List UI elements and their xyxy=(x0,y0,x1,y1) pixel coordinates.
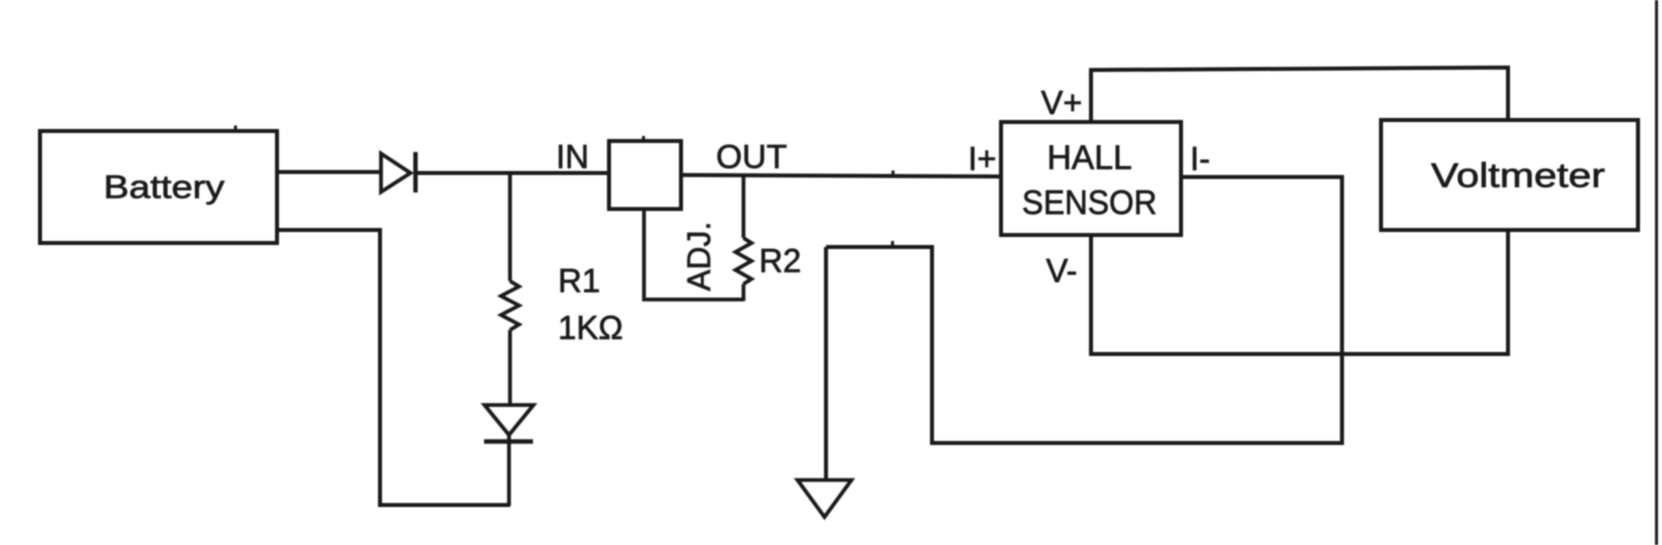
label V- xyxy=(1046,252,1077,289)
label R1 1KΩ xyxy=(558,262,623,346)
svg-text:Voltmeter: Voltmeter xyxy=(1431,157,1605,195)
svg-text:V+: V+ xyxy=(1041,84,1082,121)
svg-text:IN: IN xyxy=(556,138,589,175)
wire ADJ pin xyxy=(644,209,744,300)
label IN xyxy=(556,138,589,175)
label I- xyxy=(1190,140,1210,177)
wire battery minus return loop xyxy=(277,230,510,505)
wire hall V+ to voltmeter top xyxy=(1091,68,1508,123)
label R2 xyxy=(759,242,801,279)
label I+ xyxy=(968,140,996,177)
ground xyxy=(798,247,852,517)
svg-text:OUT: OUT xyxy=(716,138,787,175)
svg-text:R2: R2 xyxy=(759,242,801,279)
wire diode to regulator IN xyxy=(415,171,610,175)
diode D1 xyxy=(381,152,416,193)
wire hall I- to ground loop xyxy=(826,177,1342,443)
svg-text:1KΩ: 1KΩ xyxy=(558,309,623,346)
resistor R1 xyxy=(501,281,519,406)
svg-text:Battery: Battery xyxy=(104,169,225,205)
label V+ xyxy=(1041,84,1082,121)
node junction at 510 xyxy=(508,173,512,281)
svg-text:I+: I+ xyxy=(968,140,996,177)
resistor R2 xyxy=(736,175,752,301)
voltmeter M1 xyxy=(1381,120,1638,230)
wire regulator OUT to hall I+ xyxy=(681,171,1002,177)
svg-text:V-: V- xyxy=(1046,252,1077,289)
svg-text:I-: I- xyxy=(1190,140,1210,177)
diode D2 zener to ground xyxy=(484,405,534,506)
regulator U1 xyxy=(609,136,681,209)
label OUT xyxy=(716,138,787,175)
wire battery plus to diode xyxy=(277,170,381,174)
frame edge xyxy=(1655,0,1658,545)
wire hall V- to voltmeter bottom xyxy=(1091,230,1508,354)
label ADJ. xyxy=(681,222,717,291)
hall sensor U2 xyxy=(1001,122,1181,235)
svg-text:SENSOR: SENSOR xyxy=(1022,184,1157,222)
svg-text:HALL: HALL xyxy=(1047,139,1132,177)
battery B1 xyxy=(40,126,277,244)
svg-text:ADJ.: ADJ. xyxy=(681,222,717,291)
svg-text:R1: R1 xyxy=(558,262,600,299)
